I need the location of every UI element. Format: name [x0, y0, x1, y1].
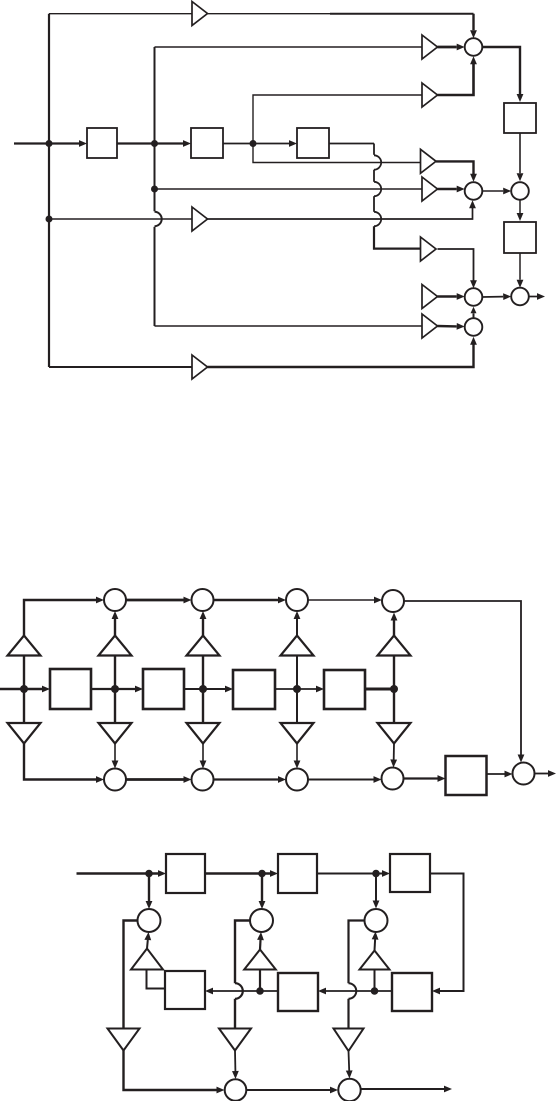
- adder B1 middle bottom row: [104, 769, 126, 791]
- feedback wire R3 to R2: [326, 990, 392, 992]
- adder T3 middle top row: [286, 589, 308, 611]
- wire amp y=47 to adder1: [438, 46, 457, 49]
- delay block Q3 bottom diagram: [390, 854, 430, 892]
- wire G2 to G3: [247, 1089, 331, 1091]
- junction node x=262 top line: [258, 870, 266, 878]
- adder P2 bottom diagram: [250, 909, 273, 932]
- gain amplifier on y=189: [422, 177, 438, 201]
- gain amplifier on y=47: [422, 35, 438, 59]
- wire amp y=219 up into adder A bottom: [208, 206, 473, 219]
- junction node x=260 feedback line: [256, 987, 264, 995]
- junction node on input bus x=49: [46, 140, 53, 147]
- branch x=115 up to gain: [114, 656, 116, 690]
- hop where bus x=154.5 crosses wire y=219: [155, 212, 162, 226]
- wire junction down into adder P1: [148, 874, 150, 902]
- delay block z3 top diagram: [297, 128, 329, 158]
- branch x=394 up to gain: [393, 656, 395, 690]
- gain amplifier down-pointing x=123: [108, 1029, 140, 1051]
- gain amplifier up-pointing x=374.5: [360, 951, 390, 970]
- gain amplifier on y=367: [192, 355, 208, 379]
- wire Q1 to Q2: [205, 872, 270, 874]
- wire B1 to B2: [126, 778, 184, 781]
- adder P1 bottom diagram: [138, 909, 161, 932]
- feed wire y=367 from bus x=49: [49, 366, 192, 368]
- vertical bus wire x=154.5 upper part: [154, 47, 156, 211]
- branch x=24 up to gain: [23, 656, 25, 690]
- wire R1 output left and up to gain: [147, 970, 166, 989]
- delay block Z5 right column: [504, 222, 536, 253]
- vertical bus wire x=49: [48, 14, 50, 367]
- wire T4 right then down into adder F: [404, 601, 521, 757]
- delay block R1 feedback row: [165, 971, 205, 1009]
- junction node x=149 top line: [145, 870, 153, 878]
- gain amplifier down-pointing x=348.5: [334, 1029, 364, 1052]
- junction node x=253 y=143: [250, 140, 257, 147]
- junction node x=203: [199, 685, 207, 693]
- junction node x=297: [293, 685, 301, 693]
- wire gain down into adder G3 top: [348, 1051, 351, 1071]
- wire Q3 right then down then left into R3: [430, 874, 464, 992]
- wire S5 to adder F: [487, 773, 505, 775]
- wire adder A to adder B: [482, 190, 503, 192]
- wire S1 to S2: [91, 688, 135, 690]
- adder summing node C: [511, 288, 529, 306]
- vertical bus wire x=154.5 lower part: [154, 227, 156, 326]
- adder B4 middle bottom row: [382, 768, 404, 790]
- wire Z4 to adder B: [519, 133, 521, 173]
- delay block S4 middle diagram: [324, 670, 365, 709]
- wire gain to adder B3 top: [296, 744, 298, 761]
- wire adder E up into adder D: [473, 313, 475, 318]
- junction node x=49 y=219: [46, 216, 53, 223]
- gain amplifier down-pointing x=24: [8, 723, 41, 744]
- feed wire y=326 from bus x=154.5: [155, 325, 423, 327]
- junction node input x=24: [20, 685, 28, 693]
- wire input x(n) to first delay block: [14, 142, 79, 144]
- wire amp y=249 down into adder D top: [438, 249, 474, 283]
- gain amplifier up-pointing x=394: [378, 636, 411, 656]
- vertical wire x=374 seg1: [373, 144, 375, 155]
- feed wire y=189 from bus x=154.5: [155, 188, 423, 190]
- vertical wire x=374 seg4 and corner to amp y=249: [374, 226, 422, 248]
- wire amp y=14 to adder1 top: [208, 13, 331, 15]
- wire output of middle diagram: [535, 773, 549, 775]
- wire gain to adder T2 bottom: [202, 619, 204, 636]
- vertical wire x=374 seg3: [373, 196, 375, 212]
- wire adder1 to delay Z4: [482, 47, 520, 96]
- wire junction to delay3: [253, 143, 289, 145]
- gain amplifier down-pointing x=297: [281, 723, 314, 744]
- adder P3 bottom diagram: [365, 909, 388, 932]
- delay block Q2 bottom diagram: [278, 854, 317, 893]
- wire x=24 down corner to adder B1: [24, 744, 98, 780]
- delay block S3 middle diagram: [233, 670, 275, 709]
- wire P3 output down seg2: [347, 999, 349, 1029]
- wire B3 to B4: [308, 779, 374, 781]
- gain amplifier up-pointing x=297: [281, 636, 314, 656]
- wire S4 to end junction: [365, 688, 394, 691]
- wire x=24 up corner to adder T1: [24, 600, 98, 636]
- wire gain to adder B2 top: [202, 744, 204, 761]
- gain amplifier on y=14: [192, 2, 208, 26]
- junction node x=115: [111, 685, 119, 693]
- delay block S5 middle diagram: [446, 756, 487, 795]
- hop x=235 over feedback line: [235, 983, 243, 999]
- vertical wire x=374 seg2: [373, 170, 375, 182]
- branch x=297 up to gain: [296, 656, 298, 690]
- wire T1 to T2: [126, 599, 184, 602]
- gain amplifier on y=249: [421, 237, 437, 261]
- junction node x=394: [390, 685, 398, 693]
- adder G3 bottom output row: [338, 1079, 360, 1101]
- branch x=203 up to gain: [202, 656, 204, 690]
- gain amplifier on y=326: [422, 314, 438, 338]
- wire S3 to S4: [275, 688, 316, 690]
- adder B2 middle bottom row: [192, 769, 214, 791]
- wire junction down into adder P3: [375, 874, 377, 901]
- adder G2 bottom output row: [225, 1079, 247, 1101]
- gain amplifier on y=296 (no input wire): [422, 285, 438, 309]
- wire adder D to adder C: [482, 296, 503, 298]
- adder B3 middle bottom row: [286, 769, 308, 791]
- branch wire down from x=253 to feed y=162: [253, 144, 422, 163]
- feedback wire R2 to R1: [213, 990, 278, 992]
- wire P1 output left and down to gain: [124, 921, 138, 1029]
- wire gain down and right into adder G2: [124, 1051, 220, 1091]
- wire output of bottom diagram: [361, 1088, 444, 1090]
- wire S2 to S3: [184, 688, 225, 690]
- wire gain to adder T4 bottom: [393, 621, 395, 636]
- wire P2 output left and down seg1: [235, 921, 250, 984]
- adder T2 middle top row: [192, 589, 214, 611]
- wire B2 to B3: [214, 778, 279, 780]
- gain amplifier on y=95: [422, 83, 438, 107]
- branch x=394 down to gain: [393, 689, 395, 723]
- wire gain to adder T1 bottom: [114, 619, 116, 636]
- junction node x=376 top line: [372, 870, 380, 878]
- wire amp y=189 to adder A: [438, 188, 457, 190]
- branch wire up from x=253 to feed y=95: [253, 95, 422, 144]
- feed wire y=219 from bus x=49: [49, 218, 192, 220]
- wire Z5 to adder C: [519, 253, 521, 280]
- wire T3 to T4: [308, 599, 374, 601]
- wire gain up into adder P2 bottom: [259, 940, 262, 950]
- delay block Q1 bottom diagram: [166, 854, 205, 893]
- delay block Z4 right column: [504, 103, 536, 133]
- delay block R3 feedback row: [392, 973, 432, 1011]
- adder T4 middle top row: [382, 590, 404, 612]
- delay block S1 middle diagram: [50, 669, 91, 709]
- wire delay2 to junction: [223, 143, 253, 145]
- wire gain up into adder P3 bottom: [374, 940, 377, 951]
- delay block R2 feedback row: [278, 973, 318, 1011]
- gain amplifier up-pointing x=147: [131, 949, 163, 970]
- junction node x=154.5 y=143: [151, 140, 158, 147]
- gain amplifier up-pointing x=115: [99, 636, 132, 656]
- wire T2 to T3: [214, 599, 279, 602]
- junction node x=374.5 feedback line: [371, 987, 379, 995]
- wire adder B to delay Z5: [519, 200, 521, 213]
- wire P3 output left and down seg1: [349, 921, 365, 984]
- wire input to bottom diagram: [77, 872, 159, 874]
- adder summing node B: [511, 182, 529, 200]
- gain amplifier up-pointing x=260: [244, 950, 276, 970]
- branch x=297 down to gain: [296, 689, 298, 723]
- hop x=374 over y=189: [374, 182, 381, 196]
- branch x=115 down to gain: [114, 689, 116, 723]
- adder T1 middle top row: [104, 589, 126, 611]
- wire delay1 to delay2: [117, 142, 183, 144]
- branch x=24 down to gain: [23, 689, 25, 723]
- adder F middle output: [513, 763, 535, 785]
- wire feedback junction up to gain x=374.5: [374, 970, 376, 992]
- gain amplifier down-pointing x=115: [99, 723, 132, 744]
- wire Q2 to Q3: [317, 873, 382, 875]
- wire P2 output down seg2: [234, 999, 236, 1029]
- wire amp y=162 down into adder A top: [436, 161, 474, 176]
- hop x=374 over y=219: [374, 212, 381, 226]
- wire gain down into adder G2 top: [234, 1051, 236, 1072]
- wire input to middle diagram: [0, 688, 42, 691]
- wire gain to adder B4 top: [393, 744, 395, 760]
- gain amplifier up-pointing x=203: [187, 636, 220, 656]
- junction node x=154.5 y=189: [151, 186, 158, 193]
- wire feedback junction up to gain x=260: [259, 970, 261, 992]
- feed wire y=47 from bus x=154.5: [155, 46, 423, 48]
- adder summing node E: [465, 318, 483, 336]
- arrow down into adder1 top: [472, 14, 474, 31]
- gain amplifier up-pointing x=24: [8, 636, 41, 656]
- hop x=374 over y=162: [374, 155, 381, 169]
- delay block S2 middle diagram: [143, 669, 184, 709]
- wire adder C output y(n): [529, 296, 537, 298]
- hop x=348.5 over feedback line: [349, 983, 357, 999]
- wire amp y=367 up into adder E bottom: [208, 342, 474, 367]
- wire gain to adder T3 bottom: [296, 619, 298, 636]
- feed wire y=14 from bus x=49: [49, 13, 192, 15]
- wire junction down into adder P2: [261, 874, 263, 902]
- wire amp y=326 to adder E: [438, 325, 457, 328]
- wire gain up into adder P1 bottom: [146, 940, 149, 949]
- wire B4 to delay S5: [404, 777, 438, 779]
- gain amplifier on y=162: [421, 149, 437, 173]
- gain amplifier on y=219: [192, 207, 208, 231]
- wire amp y=95 up into adder1 bottom: [438, 60, 474, 95]
- wire gain to adder B1 top: [114, 744, 116, 761]
- adder summing node A: [465, 182, 483, 200]
- gain amplifier down-pointing x=203: [187, 723, 220, 744]
- gain amplifier down-pointing x=394: [378, 723, 411, 744]
- adder summing node D: [465, 288, 483, 306]
- wire delay3 output right then down x=374: [329, 143, 374, 145]
- wire amp y=296 to adder D: [438, 295, 457, 297]
- branch x=203 down to gain: [202, 689, 204, 723]
- gain amplifier down-pointing x=235: [219, 1029, 251, 1051]
- delay block z2 top diagram: [191, 128, 223, 158]
- delay block z1 top diagram: [87, 128, 117, 158]
- adder summing node 1: [465, 38, 483, 56]
